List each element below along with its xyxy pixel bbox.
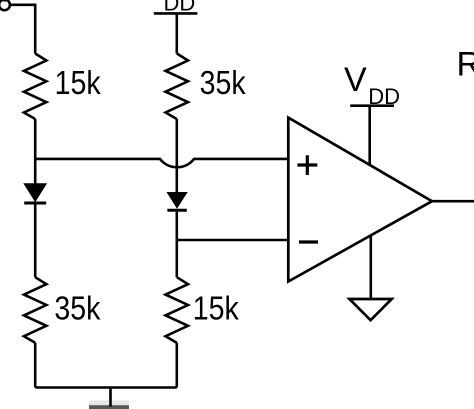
wire to inverting input	[177, 239, 289, 242]
wire	[34, 119, 37, 185]
wire	[10, 4, 35, 7]
diode D2	[167, 193, 186, 211]
Vdd supply op-amp	[344, 61, 400, 109]
output wire	[432, 200, 474, 203]
minus input symbol	[299, 240, 318, 243]
svg-text:35k: 35k	[200, 64, 247, 101]
svg-text:35k: 35k	[54, 289, 101, 326]
resistor R4	[166, 277, 189, 343]
svg-text:15k: 15k	[193, 289, 240, 326]
diode D1	[24, 184, 46, 203]
wire	[368, 106, 371, 165]
bottom rail wire	[35, 386, 177, 389]
ground	[89, 388, 129, 409]
op-amp U1	[288, 118, 432, 282]
resistor R2	[166, 54, 189, 120]
wire	[176, 343, 179, 388]
wire	[34, 4, 37, 54]
node A wire with hop	[35, 159, 289, 167]
resistor R3	[24, 277, 47, 343]
wire	[34, 343, 37, 388]
svg-text:V: V	[344, 61, 367, 99]
resistor R1	[24, 54, 47, 120]
svg-text:15k: 15k	[55, 64, 102, 101]
ground op-amp	[349, 299, 391, 320]
plus input symbol	[297, 155, 317, 175]
wire	[176, 13, 179, 53]
Vdd supply top	[154, 0, 198, 16]
svg-text:R: R	[457, 45, 474, 83]
wire	[34, 205, 37, 278]
wire	[369, 236, 372, 299]
wire	[176, 212, 179, 277]
wire	[176, 119, 179, 193]
terminal B	[0, 0, 10, 10]
